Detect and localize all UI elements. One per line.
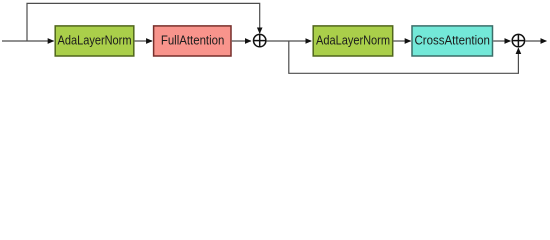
adder node 2 (circled plus) [512,34,524,46]
wire: adder 1 to AdaLayerNorm (second) [267,40,312,42]
block CrossAttention [412,26,493,56]
wire: output line to right [525,40,546,42]
wire: arrow CrossAttention to adder 2 [493,40,510,42]
block AdaLayerNorm (second) [313,26,393,56]
wire: arrow AdaLayerNorm to CrossAttention [393,40,410,42]
svg-text:CrossAttention: CrossAttention [414,32,490,47]
wire: input line from left edge [2,40,54,42]
wire: arrow FullAttention to adder 1 [232,40,251,42]
wire: bottom skip connection (adder1 output to adder 2) [289,41,519,73]
wire: top skip connection (input to first adder) [27,3,260,41]
svg-text:AdaLayerNorm: AdaLayerNorm [316,32,390,47]
adder node 1 (circled plus) [254,34,266,46]
wire: arrow AdaLayerNorm to FullAttention [135,40,152,42]
block FullAttention [154,26,231,56]
svg-text:AdaLayerNorm: AdaLayerNorm [58,32,132,47]
block AdaLayerNorm (first) [55,26,134,56]
svg-text:FullAttention: FullAttention [161,32,225,47]
